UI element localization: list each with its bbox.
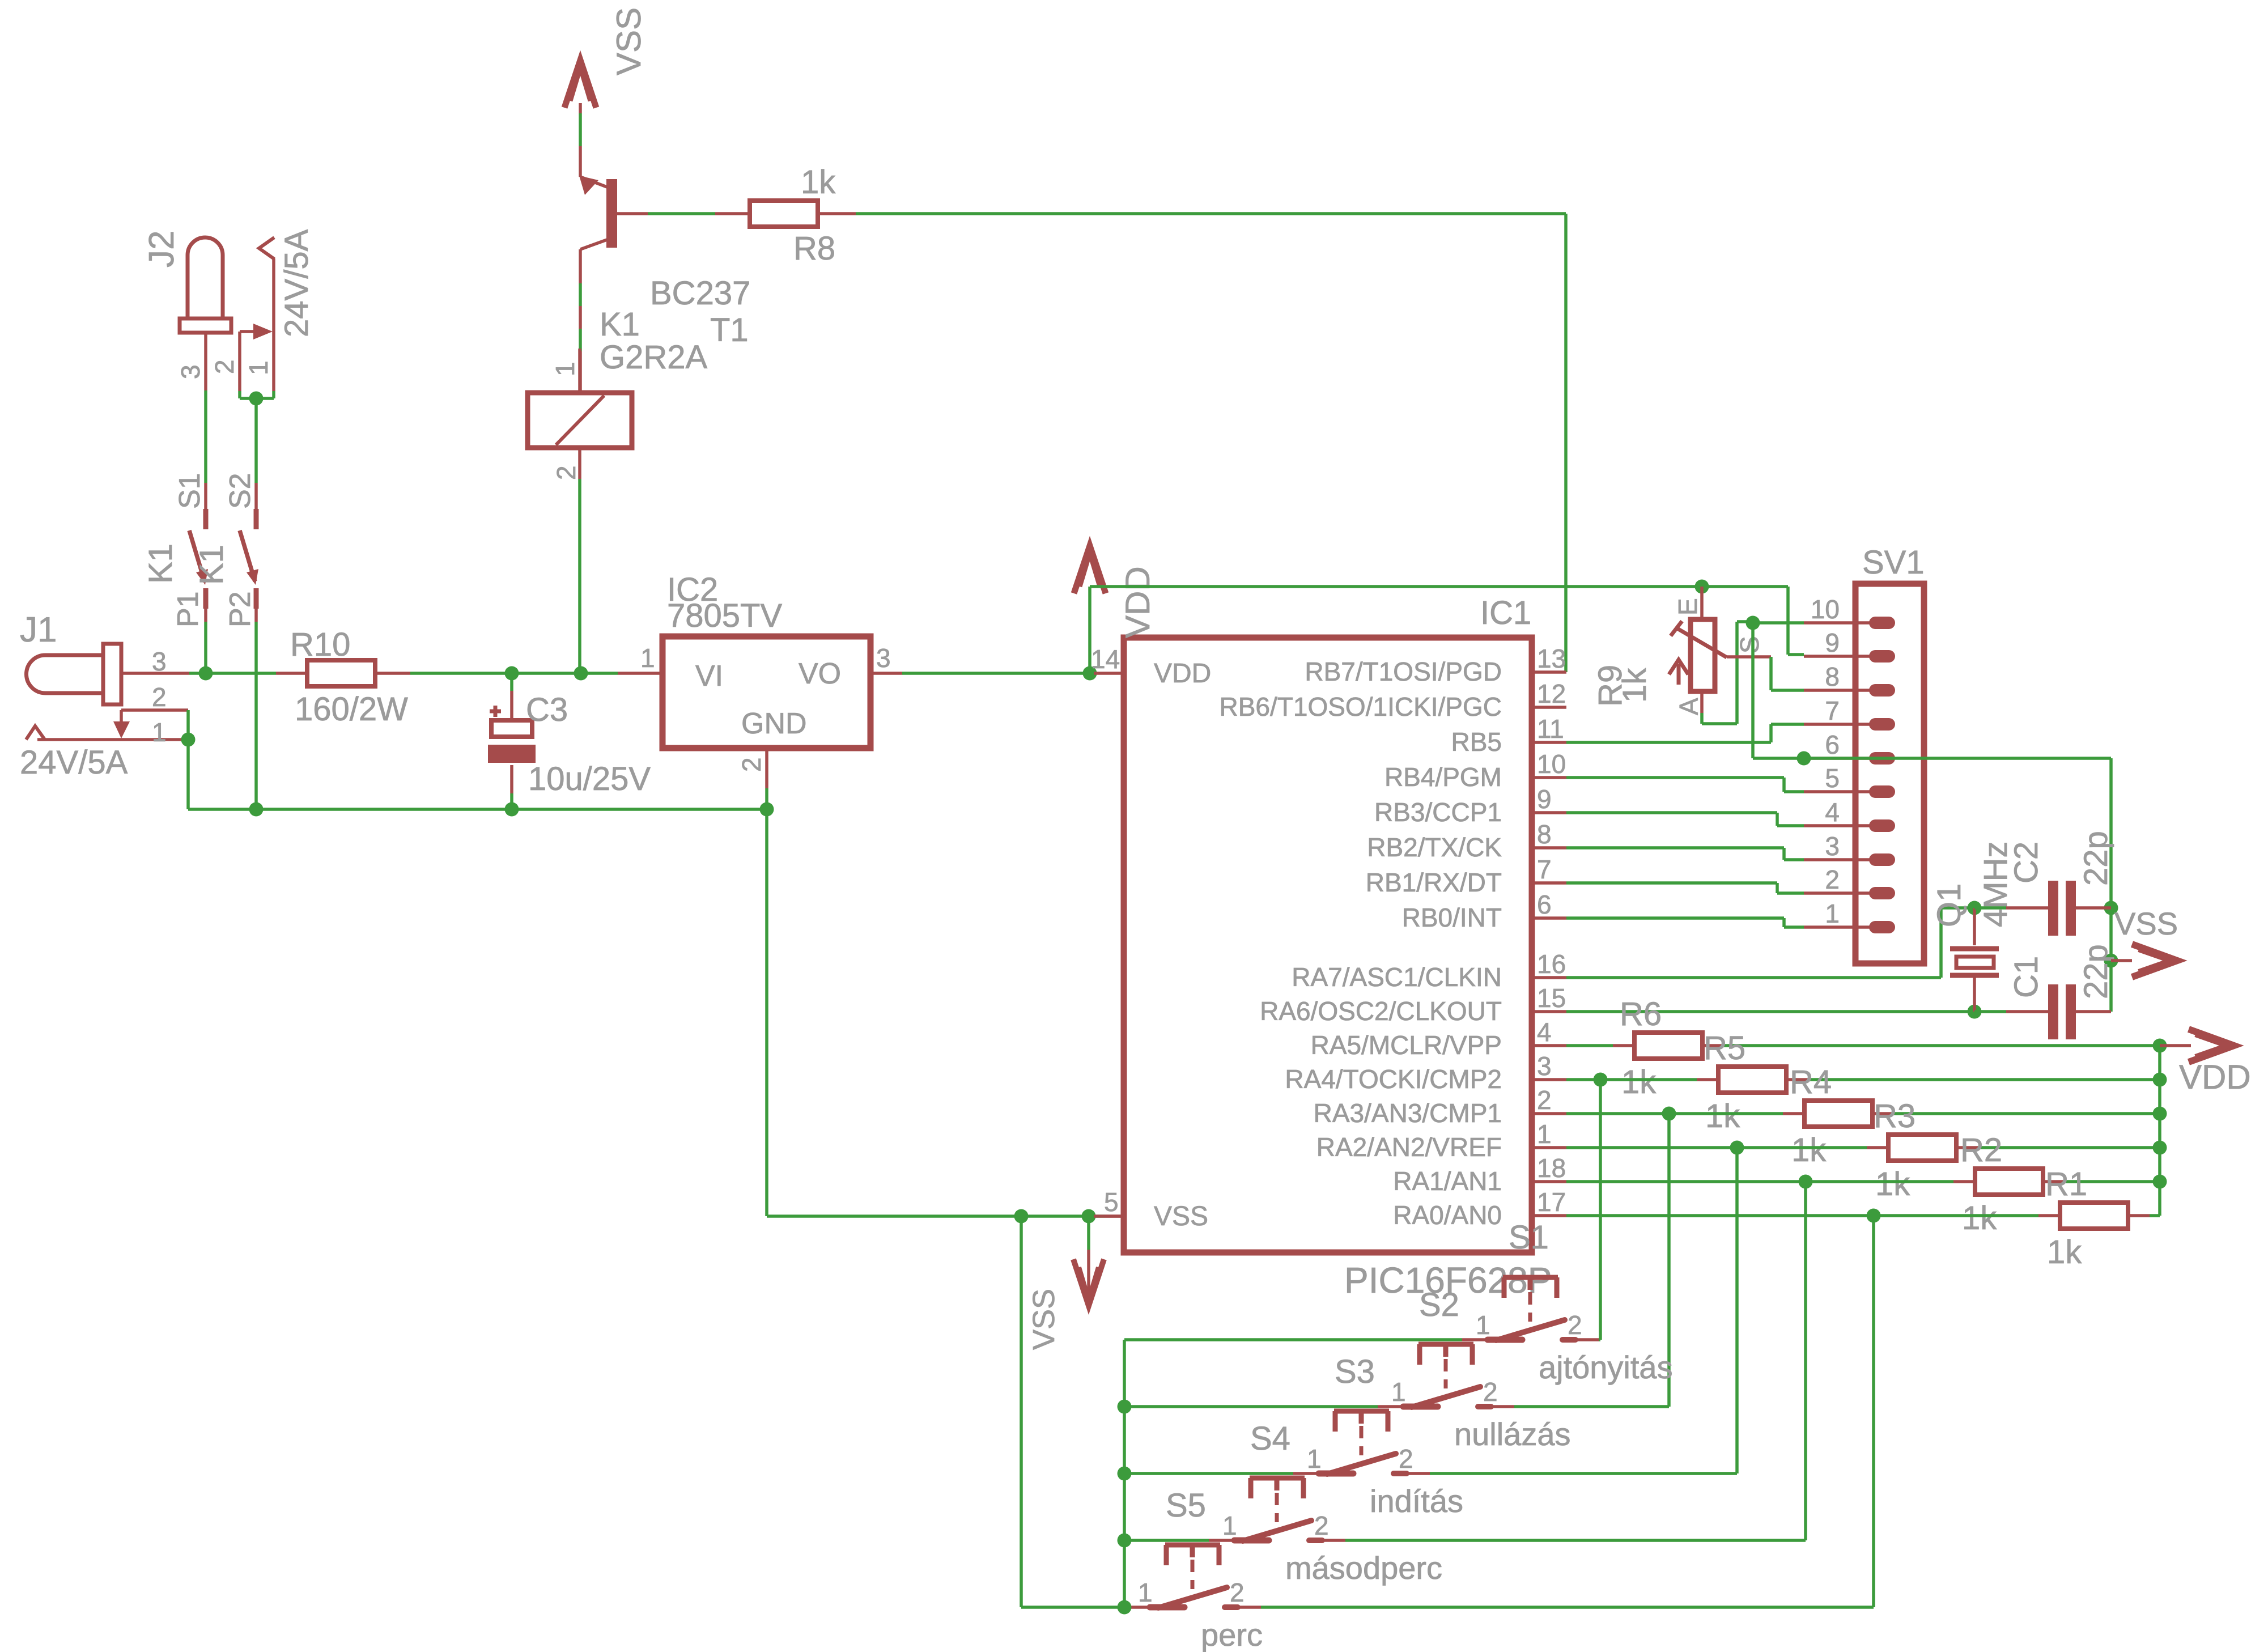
svg-text:2: 2 (1568, 1310, 1582, 1340)
svg-text:S1: S1 (1509, 1219, 1549, 1256)
svg-text:2: 2 (1314, 1511, 1329, 1540)
svg-text:1: 1 (1476, 1310, 1490, 1340)
svg-text:3: 3 (876, 643, 891, 673)
svg-text:2: 2 (152, 682, 167, 712)
svg-text:1: 1 (550, 362, 580, 376)
svg-text:R4: R4 (1790, 1064, 1832, 1101)
svg-text:9: 9 (1537, 784, 1552, 814)
svg-text:10: 10 (1811, 594, 1840, 624)
svg-text:R6: R6 (1620, 996, 1662, 1033)
svg-text:1: 1 (640, 643, 655, 673)
svg-text:5: 5 (1825, 763, 1840, 793)
svg-text:GND: GND (741, 707, 807, 740)
svg-text:2: 2 (1399, 1444, 1413, 1473)
svg-text:G2R2A: G2R2A (600, 339, 708, 376)
svg-text:4: 4 (1825, 797, 1840, 827)
svg-text:1: 1 (1537, 1119, 1552, 1149)
svg-text:7: 7 (1537, 855, 1552, 884)
svg-text:S: S (1735, 636, 1764, 653)
svg-text:1k: 1k (1616, 668, 1653, 703)
svg-text:2: 2 (1230, 1578, 1245, 1607)
svg-text:6: 6 (1537, 890, 1552, 919)
svg-text:K1: K1 (600, 306, 640, 343)
svg-text:1k: 1k (1791, 1132, 1827, 1169)
svg-text:RA3/AN3/CMP1: RA3/AN3/CMP1 (1314, 1098, 1502, 1128)
svg-text:15: 15 (1537, 983, 1566, 1013)
svg-text:P2: P2 (224, 591, 257, 627)
svg-text:1k: 1k (801, 164, 836, 201)
svg-text:2: 2 (1483, 1377, 1498, 1407)
svg-text:C1: C1 (2008, 956, 2045, 998)
svg-text:24V/5A: 24V/5A (278, 229, 315, 337)
svg-text:RB4/PGM: RB4/PGM (1384, 762, 1502, 792)
svg-text:K1: K1 (142, 543, 179, 584)
svg-text:2: 2 (551, 465, 581, 480)
svg-text:VDD: VDD (1119, 566, 1157, 638)
svg-text:1k: 1k (1621, 1064, 1657, 1101)
svg-text:VO: VO (799, 657, 841, 690)
svg-text:SV1: SV1 (1862, 544, 1925, 581)
svg-text:3: 3 (176, 364, 205, 379)
svg-text:Q1: Q1 (1931, 884, 1968, 927)
svg-text:22p: 22p (2078, 831, 2114, 886)
svg-text:2: 2 (737, 757, 766, 772)
svg-text:3: 3 (1825, 831, 1840, 861)
svg-text:13: 13 (1537, 644, 1566, 673)
svg-text:1k: 1k (1875, 1166, 1910, 1203)
svg-text:másodperc: másodperc (1285, 1550, 1442, 1586)
svg-text:perc: perc (1201, 1617, 1263, 1652)
svg-text:R10: R10 (290, 626, 350, 663)
svg-text:1k: 1k (1962, 1200, 1997, 1237)
svg-text:24V/5A: 24V/5A (20, 744, 128, 781)
svg-text:3: 3 (1537, 1051, 1552, 1081)
svg-text:5: 5 (1104, 1187, 1119, 1217)
svg-text:VSS: VSS (610, 7, 648, 75)
svg-text:VSS: VSS (1154, 1201, 1208, 1231)
svg-text:BC237: BC237 (650, 275, 750, 312)
svg-text:1k: 1k (2047, 1234, 2082, 1271)
svg-text:RB5: RB5 (1451, 727, 1502, 757)
svg-text:RA2/AN2/VREF: RA2/AN2/VREF (1316, 1132, 1502, 1162)
svg-text:14: 14 (1091, 644, 1120, 674)
svg-text:S1: S1 (173, 473, 206, 509)
svg-text:R8: R8 (793, 230, 835, 267)
svg-text:4: 4 (1537, 1017, 1552, 1047)
svg-text:S2: S2 (224, 473, 257, 509)
svg-text:RB3/CCP1: RB3/CCP1 (1374, 797, 1502, 827)
svg-text:VI: VI (695, 660, 723, 693)
svg-text:S5: S5 (1166, 1487, 1206, 1524)
svg-text:S4: S4 (1250, 1420, 1290, 1457)
svg-text:RA7/ASC1/CLKIN: RA7/ASC1/CLKIN (1292, 962, 1502, 992)
svg-text:C3: C3 (526, 691, 568, 728)
svg-text:RA1/AN1: RA1/AN1 (1393, 1166, 1502, 1196)
svg-text:R3: R3 (1874, 1098, 1916, 1135)
svg-text:R1: R1 (2045, 1166, 2087, 1203)
svg-text:ajtónyitás: ajtónyitás (1539, 1349, 1673, 1385)
svg-text:S3: S3 (1335, 1353, 1375, 1390)
svg-text:16: 16 (1537, 949, 1566, 979)
svg-text:K1: K1 (193, 545, 230, 585)
svg-text:6: 6 (1825, 730, 1840, 759)
svg-text:RB1/RX/DT: RB1/RX/DT (1366, 868, 1502, 897)
svg-text:22p: 22p (2078, 944, 2114, 999)
svg-text:VSS: VSS (1027, 1289, 1061, 1350)
svg-text:VDD: VDD (1154, 659, 1211, 689)
svg-text:1: 1 (152, 717, 167, 747)
svg-text:9: 9 (1825, 628, 1840, 657)
svg-text:7805TV: 7805TV (667, 597, 782, 634)
svg-text:J2: J2 (142, 231, 181, 267)
svg-text:1k: 1k (1705, 1098, 1740, 1135)
svg-text:10: 10 (1537, 749, 1566, 779)
svg-text:RB6/T1OSO/1ICKI/PGC: RB6/T1OSO/1ICKI/PGC (1220, 692, 1502, 721)
svg-text:C2: C2 (2008, 842, 2045, 884)
svg-text:RB0/INT: RB0/INT (1402, 903, 1502, 932)
svg-text:1: 1 (244, 360, 273, 375)
svg-text:J1: J1 (20, 610, 57, 649)
svg-text:S2: S2 (1419, 1286, 1459, 1323)
svg-text:2: 2 (1825, 865, 1840, 894)
svg-text:RB7/T1OSI/PGD: RB7/T1OSI/PGD (1305, 657, 1502, 686)
svg-text:IC1: IC1 (1480, 594, 1531, 631)
svg-text:nullázás: nullázás (1454, 1416, 1570, 1452)
svg-text:1: 1 (1222, 1511, 1237, 1540)
svg-text:3: 3 (152, 647, 167, 676)
svg-text:indítás: indítás (1370, 1483, 1463, 1519)
svg-text:1: 1 (1138, 1578, 1153, 1607)
svg-text:10u/25V: 10u/25V (528, 761, 651, 797)
svg-text:VSS: VSS (2114, 906, 2178, 941)
svg-text:1: 1 (1825, 899, 1840, 928)
svg-text:160/2W: 160/2W (295, 691, 408, 728)
svg-text:12: 12 (1537, 679, 1566, 708)
svg-text:1: 1 (1391, 1377, 1406, 1407)
svg-text:RA6/OSC2/CLKOUT: RA6/OSC2/CLKOUT (1260, 996, 1502, 1026)
svg-text:1: 1 (1307, 1444, 1322, 1473)
svg-text:R2: R2 (1960, 1132, 2002, 1169)
svg-text:7: 7 (1825, 696, 1840, 725)
svg-text:8: 8 (1825, 662, 1840, 691)
svg-text:8: 8 (1537, 819, 1552, 849)
svg-text:11: 11 (1537, 714, 1564, 744)
svg-text:2: 2 (210, 359, 239, 374)
svg-text:T1: T1 (710, 312, 749, 349)
svg-text:RB2/TX/CK: RB2/TX/CK (1367, 833, 1502, 862)
svg-text:17: 17 (1537, 1187, 1566, 1217)
svg-text:E: E (1673, 598, 1702, 615)
svg-text:RA5/MCLR/VPP: RA5/MCLR/VPP (1311, 1030, 1502, 1060)
svg-text:RA4/TOCKI/CMP2: RA4/TOCKI/CMP2 (1285, 1064, 1502, 1094)
svg-text:RA0/AN0: RA0/AN0 (1393, 1200, 1502, 1230)
svg-text:2: 2 (1537, 1085, 1552, 1115)
svg-text:VDD: VDD (2179, 1058, 2251, 1096)
svg-text:R5: R5 (1704, 1030, 1745, 1067)
svg-text:A: A (1674, 698, 1704, 715)
svg-text:18: 18 (1537, 1153, 1566, 1183)
svg-text:P1: P1 (172, 591, 205, 627)
